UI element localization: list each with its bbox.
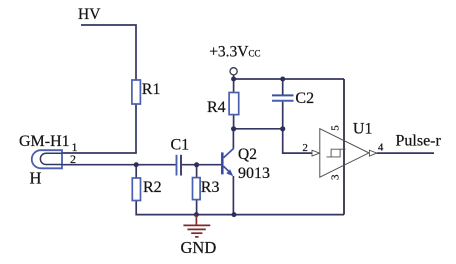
svg-text:R2: R2 [143, 179, 162, 196]
svg-text:C1: C1 [171, 137, 190, 154]
svg-text:5: 5 [330, 125, 342, 131]
svg-text:R1: R1 [142, 81, 161, 98]
svg-text:Q2: Q2 [238, 146, 257, 163]
svg-text:9013: 9013 [238, 165, 270, 182]
svg-text:3: 3 [330, 174, 342, 180]
svg-text:GM-H1: GM-H1 [19, 133, 70, 150]
svg-text:U1: U1 [353, 121, 373, 138]
svg-text:4: 4 [378, 141, 384, 153]
svg-text:R4: R4 [207, 99, 226, 116]
svg-text:R3: R3 [201, 179, 220, 196]
svg-text:GND: GND [181, 238, 217, 257]
svg-text:C2: C2 [295, 90, 314, 107]
svg-text:HV: HV [78, 6, 101, 23]
svg-text:2: 2 [70, 152, 76, 166]
svg-text:H: H [30, 169, 42, 188]
svg-text:Pulse-r: Pulse-r [396, 133, 442, 150]
svg-text:2: 2 [302, 142, 308, 154]
